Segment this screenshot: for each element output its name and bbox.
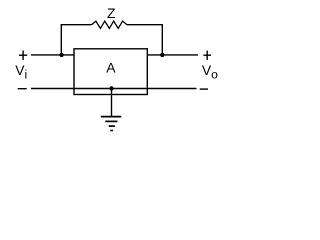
resistor Z zigzag: [92, 21, 128, 28]
ground symbol bar 2: [105, 120, 117, 122]
op block A (amplifier rectangle): [74, 49, 147, 95]
label - (output polarity): [200, 88, 208, 90]
node: left feedback tap junction dot: [59, 53, 63, 57]
ground symbol bar 1: [101, 116, 122, 118]
wire: right feedback vertical riser: [161, 24, 163, 55]
node: ground junction dot on rail: [109, 86, 113, 90]
wire: output top from amplifier block to +: [147, 54, 198, 56]
node: right feedback tap junction dot: [160, 53, 164, 57]
svg-text:Vi: Vi: [15, 62, 27, 81]
label + (output polarity): [203, 51, 211, 60]
label - (input polarity): [18, 88, 27, 90]
wire: input top from + to amplifier block: [31, 54, 75, 56]
svg-text:Vo: Vo: [202, 62, 218, 81]
label + (input polarity): [19, 51, 27, 61]
wire: top feedback left segment: [61, 24, 92, 26]
ground symbol bar 3: [109, 125, 115, 127]
wire: left feedback vertical riser: [60, 24, 62, 55]
wire: ground stem: [111, 89, 113, 117]
wire: top feedback right segment: [127, 24, 163, 26]
wire: bottom common rail: [31, 88, 197, 90]
svg-text:Z: Z: [107, 5, 116, 21]
ground symbol bar 4: [110, 130, 113, 132]
svg-text:A: A: [106, 59, 116, 75]
